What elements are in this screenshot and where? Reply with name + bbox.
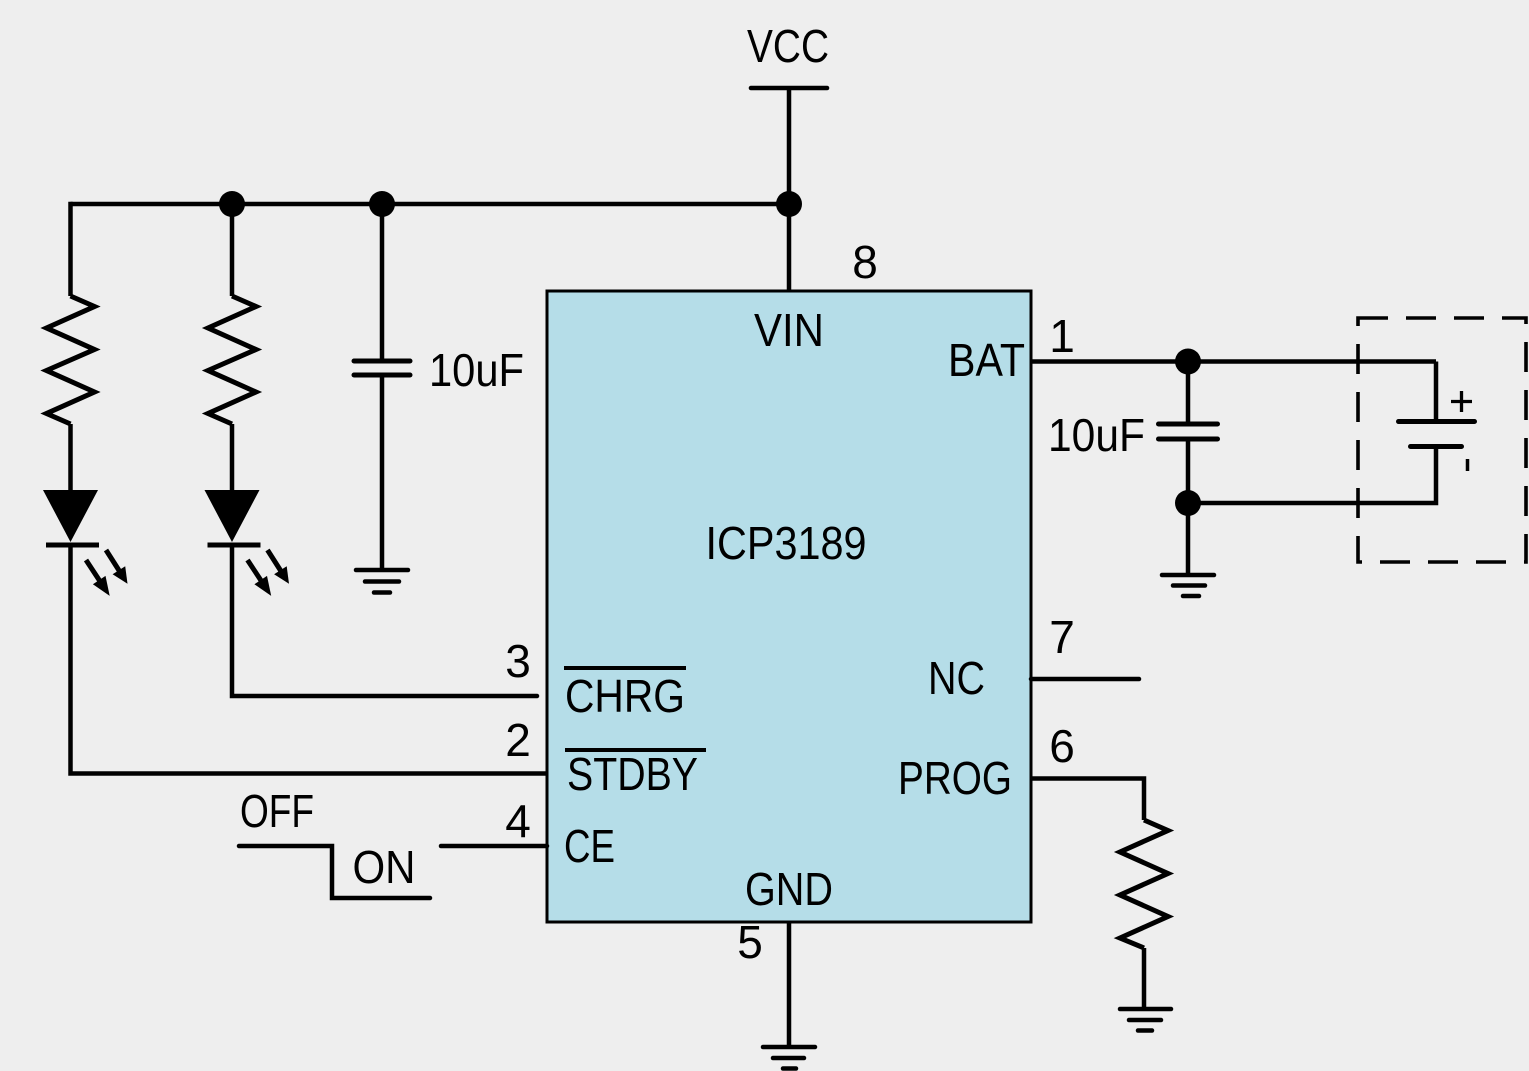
wire VCC to VIN pin 8 xyxy=(787,88,792,291)
node junction dot C2/battery return xyxy=(1175,490,1201,516)
svg-text:BAT: BAT xyxy=(948,334,1025,386)
IC U1 body xyxy=(547,291,1031,922)
CE control waveform xyxy=(239,846,430,898)
wire R1 to D1 xyxy=(68,424,73,492)
svg-text:NC: NC xyxy=(928,652,985,704)
wire D2 to CHRG pin 3 xyxy=(232,545,537,696)
node junction dot rail/C1 xyxy=(369,191,395,217)
wire C1 to ground xyxy=(380,375,385,570)
pin label CHRG with overline xyxy=(564,668,686,722)
svg-text:6: 6 xyxy=(1049,720,1075,772)
VCC power symbol xyxy=(747,20,829,88)
wire BAT pin 1 to battery xyxy=(1031,359,1436,364)
svg-text:7: 7 xyxy=(1049,611,1075,663)
resistor R2 xyxy=(208,296,256,424)
ground (C2) xyxy=(1162,575,1214,596)
wire CE pin 4 stub xyxy=(441,844,547,849)
svg-text:10uF: 10uF xyxy=(429,344,524,396)
svg-text:CHRG: CHRG xyxy=(565,670,685,722)
ground (R3) xyxy=(1120,1009,1171,1031)
svg-text:3: 3 xyxy=(505,635,531,687)
node junction dot rail/R1 xyxy=(219,191,245,217)
wire GND pin 5 to ground xyxy=(787,922,792,1047)
svg-text:STDBY: STDBY xyxy=(567,748,698,800)
resistor R3 xyxy=(1120,820,1168,948)
resistor R1 xyxy=(47,296,95,424)
wire rail corner down to R1 xyxy=(68,202,73,296)
capacitor C2 xyxy=(1159,424,1218,439)
battery BT1 xyxy=(1188,362,1475,504)
svg-text:1: 1 xyxy=(1049,310,1075,362)
svg-text:ON: ON xyxy=(353,841,416,893)
LED D1 xyxy=(43,490,128,596)
battery BT1 outline (dashed) xyxy=(1358,318,1526,562)
LED D2 xyxy=(205,490,290,596)
ground (GND pin) xyxy=(763,1047,815,1069)
pin label STDBY with overline xyxy=(565,748,706,800)
wire rail down to R2 xyxy=(230,204,235,296)
wire C2 to ground node xyxy=(1186,439,1191,503)
wire top rail xyxy=(71,202,790,207)
wire C2 node to ground xyxy=(1186,503,1191,575)
wire D1 to STDBY pin 2 xyxy=(71,545,548,774)
svg-text:4: 4 xyxy=(505,795,531,847)
capacitor C1 xyxy=(354,361,410,375)
svg-text:VIN: VIN xyxy=(754,304,824,356)
svg-text:OFF: OFF xyxy=(240,785,314,837)
wire BAT node down to C2 xyxy=(1186,362,1191,425)
wire R2 to D2 xyxy=(230,424,235,492)
svg-text:5: 5 xyxy=(737,916,763,968)
svg-text:GND: GND xyxy=(745,863,833,915)
svg-text:8: 8 xyxy=(852,236,878,288)
wire PROG pin 6 to R3 xyxy=(1031,779,1144,821)
node junction dot rail/VIN xyxy=(776,191,802,217)
svg-text:ICP3189: ICP3189 xyxy=(706,517,867,569)
wire R3 to ground xyxy=(1142,948,1147,1009)
wire NC pin 7 stub xyxy=(1031,677,1139,682)
svg-text:PROG: PROG xyxy=(898,752,1012,804)
wire rail down to C1 xyxy=(380,204,385,361)
svg-text:CE: CE xyxy=(564,820,615,872)
node junction dot BAT/C2 xyxy=(1175,349,1201,375)
svg-text:2: 2 xyxy=(505,714,531,766)
svg-text:VCC: VCC xyxy=(747,20,829,72)
svg-text:10uF: 10uF xyxy=(1048,409,1145,461)
ground (C1) xyxy=(356,570,408,593)
